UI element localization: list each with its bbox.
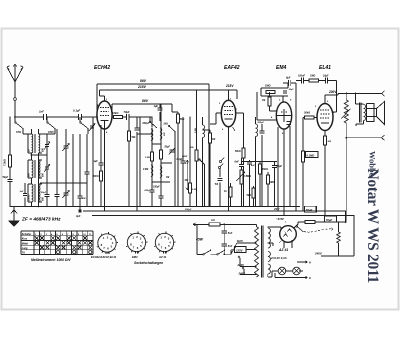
- svg-text:0.3M: 0.3M: [192, 189, 197, 191]
- svg-text:100nF: 100nF: [298, 75, 305, 78]
- svg-text:2×6,3V 0,3A: 2×6,3V 0,3A: [270, 256, 287, 260]
- svg-text:Mittel: Mittel: [22, 242, 29, 245]
- wire x152 chain: [151, 128, 153, 207]
- trimmer C t2: [45, 167, 49, 168]
- switch S2 band: [46, 117, 48, 122]
- wire speaker jack bottom: [346, 137, 381, 139]
- field coil adjust arrow: [342, 109, 351, 119]
- capacitor 30uF box right: [284, 90, 285, 94]
- wire EAF42 right pins: [236, 112, 244, 114]
- capacitor x137: [134, 128, 139, 129]
- svg-text:EM4: EM4: [276, 65, 287, 71]
- resistor x161: [160, 150, 163, 159]
- svg-text:1MΩ: 1MΩ: [310, 75, 315, 78]
- wire mains left verticals: [196, 224, 198, 254]
- capacitor 50pF left: [7, 180, 12, 181]
- socket ECH42/EAF42/EL41: [98, 234, 116, 252]
- svg-text:1µF: 1µF: [154, 104, 159, 108]
- wire x303 drop: [302, 118, 304, 212]
- wire bias top link: [242, 161, 278, 163]
- capacitor 20nF: [200, 180, 202, 207]
- resistor cathode EL41: [324, 136, 327, 145]
- wire input line: [15, 116, 44, 118]
- wire field coil to B+: [345, 123, 347, 222]
- svg-text:2kΩ: 2kΩ: [163, 124, 169, 126]
- svg-text:50k: 50k: [132, 136, 137, 139]
- capacitor x161 bottom: [158, 196, 163, 197]
- rectifier AZ41: [280, 226, 297, 243]
- svg-text:24V: 24V: [273, 207, 280, 211]
- node dots input line: [34, 116, 36, 118]
- svg-text:50pF: 50pF: [3, 176, 9, 179]
- tube EM4 magic eye: [276, 102, 291, 129]
- svg-text:39kΩ: 39kΩ: [262, 168, 268, 171]
- svg-text:70µF: 70µF: [326, 218, 333, 222]
- rail 86V lower: [112, 103, 172, 105]
- transformer HT secondary: [268, 228, 271, 248]
- wire vertical x57: [56, 129, 58, 207]
- coil L2 pair: [32, 160, 34, 178]
- wire HT to AZ41: [268, 226, 281, 228]
- svg-text:150pF: 150pF: [153, 187, 160, 189]
- speaker cone: [374, 109, 377, 117]
- wire 215V drop mid: [196, 90, 198, 207]
- wire box to EM4 top: [282, 96, 284, 102]
- tube ECH42: [97, 101, 112, 129]
- coil L3 pair oscillator: [32, 184, 34, 202]
- wire EAF42 grid to coil: [203, 129, 211, 131]
- svg-text:70µF: 70µF: [124, 110, 130, 114]
- coil osc x161: [160, 128, 162, 139]
- capacitor 6uF: [283, 82, 289, 84]
- svg-text:125V: 125V: [236, 248, 244, 252]
- svg-text:600p: 600p: [145, 190, 151, 192]
- svg-text:1MΩ: 1MΩ: [265, 85, 270, 88]
- resistor 39k: [259, 162, 261, 207]
- svg-text:50kΩ: 50kΩ: [235, 151, 241, 153]
- fuse 1A: [193, 223, 209, 225]
- svg-text:0.2M: 0.2M: [195, 128, 197, 133]
- jack output bottom: [382, 135, 385, 140]
- dial indicator double arrow: [186, 160, 188, 190]
- coil osc x161 low: [160, 166, 162, 177]
- svg-text:240V: 240V: [238, 272, 247, 276]
- resistor 7.5k left: [9, 155, 12, 167]
- antenna: [14, 82, 16, 98]
- capacitor 1nF left: [23, 194, 27, 195]
- svg-text:5kΩ: 5kΩ: [180, 119, 185, 121]
- svg-text:16µF: 16µF: [323, 75, 329, 78]
- svg-text:−8.5V: −8.5V: [276, 217, 285, 221]
- svg-text:Sockelschaltungen: Sockelschaltungen: [134, 261, 163, 265]
- mains switch: [197, 253, 203, 255]
- wire EL41 plate 200V: [324, 95, 326, 104]
- svg-text:EAF42: EAF42: [224, 65, 240, 71]
- wire antenna to input line: [14, 100, 16, 117]
- svg-text:AZ 41: AZ 41: [278, 248, 288, 252]
- switch B+ with linkage: [296, 226, 298, 228]
- wire EM4 pins down: [277, 127, 279, 211]
- svg-text:1µF: 1µF: [94, 160, 99, 163]
- wire AZ41 B+ output: [294, 224, 298, 228]
- svg-text:200V: 200V: [328, 90, 337, 94]
- svg-text:1A: 1A: [211, 218, 215, 222]
- variable capacitor tuning gang 2: [63, 193, 68, 194]
- resistor 50k x129: [128, 131, 131, 141]
- jack output top: [382, 91, 385, 96]
- svg-text:6µF: 6µF: [286, 77, 291, 80]
- wire 6uF node down: [295, 83, 297, 211]
- svg-text:30µF: 30µF: [289, 89, 295, 91]
- switch TA aux: [199, 159, 201, 161]
- capacitor 70uF boxed 2: [325, 216, 337, 222]
- transformer primary winding: [255, 227, 259, 278]
- wire rail1 right drop (AVC line): [208, 84, 210, 207]
- svg-text:1MΩ: 1MΩ: [270, 181, 275, 184]
- transformer core: [260, 226, 262, 278]
- wire 240V line: [321, 255, 354, 257]
- wire coil column interconnects: [31, 129, 33, 134]
- node dots on bus -8.5V: [282, 215, 284, 217]
- svg-text:30kΩ: 30kΩ: [304, 112, 310, 115]
- resistor 1M det: [209, 130, 211, 207]
- resistor 1M left of EM4: [269, 92, 271, 97]
- svg-text:80µF: 80µF: [277, 165, 283, 168]
- switch S3 band: [79, 117, 81, 122]
- wire mid interconnect y144: [152, 143, 161, 145]
- wire left interconnect y155: [31, 154, 48, 156]
- wire mid interconnect y182: [152, 181, 170, 183]
- wire vertical x80 to B point: [79, 134, 81, 207]
- capacitor TA coupling: [217, 179, 222, 180]
- wire rail1 left drop: [96, 84, 98, 117]
- wire ECH42 plate top: [104, 96, 106, 101]
- capacitor 1uF cathode: [98, 163, 103, 164]
- wire plate to IF coil: [140, 116, 152, 118]
- svg-text:Lang: Lang: [22, 247, 28, 250]
- trimmer arrow padder: [90, 126, 94, 127]
- resistor 1k: [230, 183, 232, 207]
- svg-text:86V: 86V: [142, 99, 149, 103]
- rail 86V top: [97, 83, 209, 85]
- svg-text:H: H: [309, 276, 311, 280]
- svg-text:1M: 1M: [262, 100, 265, 102]
- socket EM4: [127, 233, 145, 251]
- svg-text:5nF: 5nF: [228, 245, 233, 248]
- wire det to EM4 grid: [256, 92, 258, 120]
- resistor 1M in box: [266, 91, 275, 94]
- variable capacitor tuning gang 1: [63, 146, 68, 147]
- capacitor x80: [77, 196, 82, 197]
- socket AZ41: [155, 233, 173, 251]
- resistor 300 ohm cathode: [100, 171, 103, 181]
- capacitor 1uF mid: [159, 104, 161, 108]
- capacitor 5nF lower: [222, 244, 228, 245]
- svg-text:Meßinstrument: 1000 Ω/V: Meßinstrument: 1000 Ω/V: [31, 258, 71, 262]
- svg-text:ST11: ST11: [16, 132, 22, 134]
- wire vertical x66 tuning: [65, 129, 67, 207]
- svg-text:0.2M: 0.2M: [145, 157, 150, 159]
- wire EAF42 plate: [228, 90, 230, 100]
- speaker: [367, 104, 375, 109]
- capacitor 5nF upper: [223, 224, 225, 254]
- svg-text:220V: 220V: [237, 263, 246, 267]
- svg-text:600pF: 600pF: [143, 123, 150, 125]
- wire mid interconnect y134: [137, 133, 152, 135]
- svg-text:0.1MΩ: 0.1MΩ: [307, 153, 315, 157]
- svg-text:Notar W WS 2011: Notar W WS 2011: [364, 169, 381, 284]
- wire screen node drop x129: [128, 117, 130, 207]
- wire 215V drop to EAF42 anode: [236, 90, 238, 99]
- capacitor 8nF det: [249, 160, 251, 207]
- resistor x190: [189, 117, 191, 207]
- svg-text:8nF: 8nF: [251, 165, 256, 167]
- wire EL41 cathode: [324, 131, 326, 216]
- svg-text:50pF: 50pF: [165, 147, 171, 149]
- svg-text:0.6M: 0.6M: [143, 169, 148, 171]
- wire vertical x73: [72, 134, 74, 207]
- svg-text:1nF: 1nF: [39, 110, 44, 114]
- wire EAF42 heater drop: [228, 127, 230, 211]
- svg-text:10000: 10000: [29, 194, 31, 201]
- svg-text:ZF = 468/473 kHz: ZF = 468/473 kHz: [21, 217, 61, 223]
- svg-text:0.5MΩ: 0.5MΩ: [244, 175, 252, 178]
- jack TA input: [219, 160, 221, 162]
- ground symbol left: [13, 207, 15, 222]
- resistor 10k screen: [112, 116, 113, 118]
- transformer heater secondary: [268, 252, 271, 262]
- resistor 5k: [253, 186, 255, 207]
- wire ECH42 heater drop: [104, 129, 106, 211]
- capacitor x57 bottom: [54, 195, 59, 196]
- wire x161 chain: [160, 104, 162, 207]
- tap 220V: [237, 242, 257, 244]
- capacitor 1nF input: [44, 114, 46, 120]
- switch mid 2: [168, 125, 170, 127]
- capacitor 70uF boxed 1: [305, 206, 317, 212]
- svg-text:1M: 1M: [166, 177, 169, 179]
- svg-text:45W: 45W: [195, 238, 204, 242]
- coil x152 low: [151, 165, 153, 176]
- capacitor 80pF: [44, 195, 49, 196]
- choke small in B+: [338, 222, 340, 232]
- svg-text:215V: 215V: [225, 84, 234, 88]
- capacitor 200pF: [261, 124, 263, 131]
- voltage selector taps: [231, 250, 233, 252]
- resistor 30k grid stopper: [303, 117, 305, 119]
- chassis ground bus: [10, 206, 300, 208]
- switch S1 band: [14, 117, 16, 122]
- wire mid interconnect y163: [161, 162, 172, 164]
- svg-text:Kurz: Kurz: [22, 238, 28, 241]
- svg-text:EM4: EM4: [132, 255, 138, 259]
- svg-text:EL41: EL41: [319, 65, 331, 71]
- svg-text:80pF: 80pF: [41, 192, 47, 194]
- svg-text:Schalter: Schalter: [22, 233, 33, 236]
- coil IF primary x152: [151, 129, 153, 140]
- svg-text:AZ 41: AZ 41: [158, 255, 167, 259]
- svg-text:ECH42: ECH42: [94, 65, 110, 71]
- capacitor 6nF: [241, 158, 243, 164]
- resistor 0.1M boxed label: [302, 151, 305, 162]
- svg-text:ECH42;EAF42;EL41: ECH42;EAF42;EL41: [91, 255, 117, 259]
- capacitor x87: [84, 172, 89, 173]
- svg-text:7.5kΩ: 7.5kΩ: [4, 159, 7, 166]
- coil IF sec left of EAF42: [202, 117, 204, 125]
- wire TA drop: [219, 169, 221, 178]
- svg-text:240V: 240V: [314, 252, 323, 256]
- terminal H upper: [297, 261, 303, 263]
- svg-text:215V: 215V: [137, 85, 147, 89]
- svg-text:5nF: 5nF: [228, 232, 233, 235]
- svg-text:1nF: 1nF: [20, 191, 25, 193]
- svg-text:86V: 86V: [140, 79, 147, 83]
- svg-text:4µF: 4µF: [75, 215, 81, 218]
- table X marks: [35, 236, 39, 240]
- svg-text:H: H: [309, 261, 311, 265]
- svg-text:TA: TA: [22, 252, 25, 255]
- svg-text:ST45: ST45: [48, 131, 54, 134]
- svg-text:20k: 20k: [189, 147, 194, 149]
- wire left interconnect y183: [40, 182, 87, 184]
- resistor x152: [151, 152, 154, 161]
- measurement table: [21, 231, 93, 255]
- capacitor 16uF: [326, 78, 327, 84]
- tap 125V boxed: [235, 247, 247, 253]
- resistor 50k det: [243, 120, 245, 207]
- resistor 1M bias: [267, 172, 269, 207]
- wire left column: [9, 117, 11, 207]
- grid chain 100nF 1M: [296, 80, 301, 82]
- wire right verticals: [353, 216, 355, 257]
- wire vertical x93: [92, 117, 94, 207]
- svg-text:200pF: 200pF: [257, 122, 265, 124]
- terminal H lower: [275, 277, 303, 279]
- wire ECH42 cathode branch: [100, 125, 102, 207]
- wire EM4 grid box: [261, 87, 288, 89]
- node dots on bus 24V: [104, 210, 106, 212]
- wire AZ41 heater drops: [283, 242, 285, 249]
- resistor 5k x178: [177, 112, 179, 207]
- capacitor 0.1uF coupling: [79, 114, 81, 120]
- capacitor 80uF bias: [274, 162, 276, 207]
- svg-text:300Ω: 300Ω: [93, 176, 99, 178]
- rail 215V: [100, 89, 238, 91]
- resistor B+ line: [305, 221, 315, 224]
- potentiometer 0.5M volume: [241, 167, 243, 207]
- bus -8.5V: [92, 215, 354, 217]
- wire vertical x47: [46, 134, 48, 207]
- svg-text:1M: 1M: [212, 139, 215, 141]
- resistor x196 on 215V drop: [195, 150, 198, 161]
- wire x140 drop: [139, 117, 141, 207]
- switch mid 1: [149, 121, 151, 123]
- capacitor 70uF screen: [123, 116, 127, 118]
- node B decoupling: [79, 207, 81, 210]
- capacitor x183: [182, 117, 184, 207]
- tube EAF42: [221, 100, 235, 126]
- capacitor x152 bottom: [149, 190, 154, 191]
- bus 24V: [83, 210, 346, 212]
- trimmer mid: [169, 150, 174, 151]
- choke field coil: [345, 94, 347, 101]
- node dots on chassis bus: [9, 206, 11, 208]
- coil IF right of EAF42: [255, 117, 257, 124]
- output transformer: [355, 94, 357, 105]
- wire x137 branch: [136, 117, 138, 128]
- coil L1 pair antenna: [32, 134, 33, 153]
- svg-text:70µF: 70µF: [306, 208, 313, 212]
- trimmer C t1: [45, 145, 49, 146]
- svg-text:6nF: 6nF: [235, 161, 240, 164]
- svg-text:TA: TA: [215, 182, 219, 186]
- tube EL41: [317, 104, 333, 131]
- svg-text:0.1µF: 0.1µF: [73, 109, 80, 113]
- svg-text:5kΩ: 5kΩ: [247, 194, 252, 197]
- table O marks TA row: [57, 251, 60, 254]
- transformer lamp secondary: [268, 264, 271, 274]
- svg-text:10kΩ: 10kΩ: [112, 111, 118, 115]
- wire vertical x87: [86, 134, 88, 207]
- svg-text:0.1µF: 0.1µF: [177, 159, 184, 161]
